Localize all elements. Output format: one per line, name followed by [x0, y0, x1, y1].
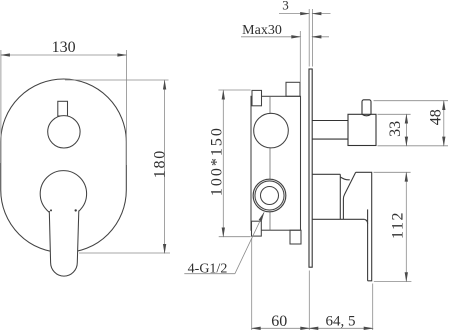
svg-text:3: 3	[282, 0, 289, 13]
svg-text:180: 180	[151, 149, 168, 178]
svg-text:33: 33	[387, 121, 404, 137]
svg-text:112: 112	[389, 211, 406, 239]
svg-text:48: 48	[428, 109, 445, 125]
svg-text:4-G1/2: 4-G1/2	[188, 261, 228, 276]
svg-text:64, 5: 64, 5	[326, 313, 356, 329]
svg-text:130: 130	[52, 39, 76, 56]
svg-text:100*150: 100*150	[208, 126, 225, 196]
svg-text:60: 60	[271, 313, 287, 330]
svg-text:Max30: Max30	[242, 23, 282, 38]
